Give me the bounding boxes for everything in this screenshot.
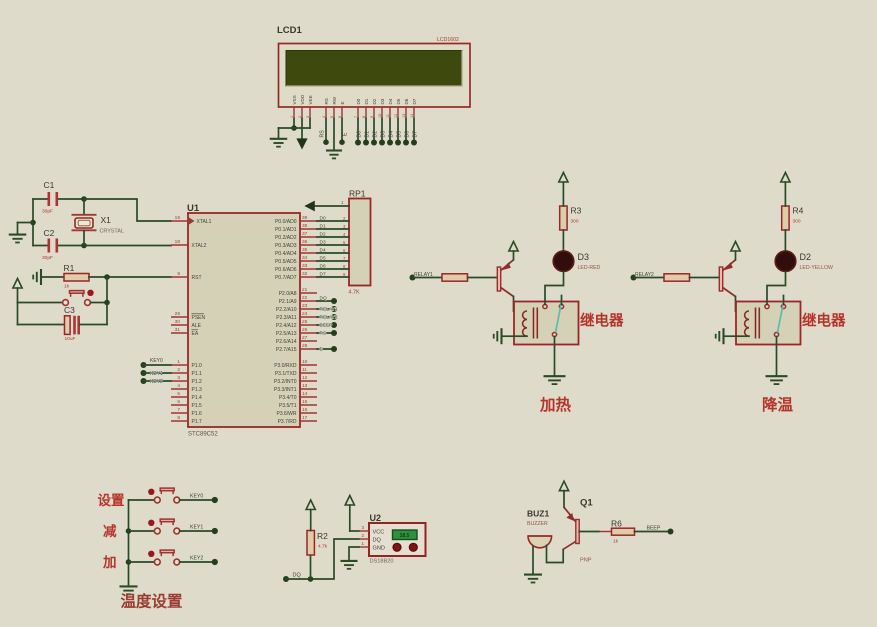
svg-text:27: 27 (302, 335, 308, 341)
node C1-XTAL1 (81, 196, 87, 202)
svg-text:RELAY2: RELAY2 (320, 315, 338, 321)
wire D6 P0 to RP1 (317, 268, 349, 270)
wire resistor to base (690, 277, 720, 279)
svg-text:CRYSTAL: CRYSTAL (100, 229, 124, 235)
svg-text:21: 21 (302, 287, 308, 293)
svg-text:D2: D2 (320, 231, 326, 237)
node D6 terminal (403, 140, 409, 146)
wire buzzer right to collector (547, 546, 564, 563)
svg-text:KEY0: KEY0 (150, 358, 163, 364)
ground (buzzer) (524, 574, 542, 576)
svg-text:P3.5/T1: P3.5/T1 (279, 403, 297, 409)
svg-text:P2.6/A14: P2.6/A14 (276, 339, 297, 345)
svg-text:VSS: VSS (292, 95, 297, 104)
node KEY1 terminal (141, 370, 147, 376)
svg-text:D0: D0 (356, 98, 361, 104)
svg-text:P2.2/A10: P2.2/A10 (276, 307, 297, 313)
svg-text:P3.0/RXD: P3.0/RXD (274, 363, 297, 369)
node KEY2 terminal (141, 378, 147, 384)
node D5 terminal (395, 140, 401, 146)
svg-text:P1.2: P1.2 (192, 379, 203, 385)
svg-text:P2.3/A11: P2.3/A11 (276, 315, 296, 321)
svg-text:D1: D1 (364, 98, 369, 104)
wire collector to coil (514, 297, 528, 312)
ground (relay coil, rotated) (503, 335, 514, 337)
svg-text:D4: D4 (388, 98, 393, 104)
svg-text:P2.4/A12: P2.4/A12 (276, 323, 297, 329)
wire D3 to contact (545, 272, 564, 305)
U2 buttons (393, 543, 401, 551)
buzzer BUZ1 (528, 536, 552, 548)
push-button KEY1 (129, 530, 155, 532)
wire D2 to contact (767, 272, 786, 305)
wire to ground (278, 128, 280, 138)
svg-text:5: 5 (177, 391, 180, 397)
svg-text:D2: D2 (372, 131, 378, 138)
svg-text:D7: D7 (412, 131, 418, 138)
relay coil (745, 311, 749, 336)
ground (crystal) (17, 223, 19, 235)
wire C1-C2 left rail (32, 199, 34, 246)
svg-text:8: 8 (177, 415, 180, 421)
ground (relay common) (766, 375, 788, 377)
node RELAY2 terminal (631, 275, 637, 281)
wire P2 net BEEP (317, 324, 334, 326)
svg-text:D3: D3 (380, 98, 385, 104)
svg-text:P0.4/AD4: P0.4/AD4 (275, 251, 297, 257)
svg-text:C2: C2 (44, 228, 55, 238)
svg-text:D7: D7 (412, 98, 417, 104)
wire R1 to RST (89, 276, 171, 278)
svg-text:KEY2: KEY2 (150, 379, 163, 385)
U1 pin 36 P0.3/AD3 (300, 244, 317, 246)
base resistor (RELAY2) (664, 274, 690, 281)
wire D3 P0 to RP1 (317, 244, 349, 246)
svg-text:E: E (340, 101, 345, 104)
svg-text:D2: D2 (800, 252, 812, 262)
svg-text:加: 加 (102, 555, 117, 570)
svg-text:VDD: VDD (300, 94, 305, 104)
power arrow (transistor VCC) (509, 242, 518, 252)
svg-text:11: 11 (386, 114, 390, 118)
wire contact stub (561, 296, 563, 305)
wire junction down (106, 277, 108, 303)
U1 pin 18 XTAL2 (171, 244, 188, 246)
LCD1 display body (279, 44, 471, 108)
svg-text:P3.3/INT1: P3.3/INT1 (274, 387, 297, 393)
svg-text:P0.6/AD6: P0.6/AD6 (275, 267, 297, 273)
svg-text:10: 10 (302, 359, 308, 365)
wire D5 P0 to RP1 (317, 260, 349, 262)
wire D0 down (357, 119, 359, 141)
svg-text:LED-YELLOW: LED-YELLOW (800, 265, 834, 271)
svg-text:P1.6: P1.6 (192, 411, 203, 417)
svg-text:36: 36 (302, 239, 308, 245)
wire VDD down (301, 119, 303, 141)
power arrow (R2 VCC) (306, 500, 315, 510)
wire R6 to BEEP (635, 531, 669, 533)
svg-text:38: 38 (302, 223, 308, 229)
svg-text:RP1: RP1 (349, 189, 366, 199)
svg-text:XTAL1: XTAL1 (197, 219, 212, 225)
resistor R2 (310, 555, 312, 579)
svg-text:18: 18 (175, 239, 181, 245)
node KEY0 terminal (141, 362, 147, 368)
svg-text:BEEP: BEEP (647, 525, 661, 531)
node D7 terminal (411, 140, 417, 146)
svg-text:KEY0: KEY0 (190, 493, 203, 499)
svg-text:P1.3: P1.3 (192, 387, 203, 393)
node BEEP terminal (668, 529, 674, 535)
capacitor C3 (electrolytic) (17, 303, 19, 325)
svg-text:10: 10 (378, 114, 382, 118)
svg-text:U2: U2 (370, 513, 382, 523)
svg-text:D0: D0 (356, 131, 362, 138)
svg-text:D5: D5 (396, 131, 402, 138)
svg-text:P2.7/A15: P2.7/A15 (276, 347, 297, 353)
svg-text:P3.1/TXD: P3.1/TXD (275, 371, 297, 377)
power arrow (transistor VCC) (731, 242, 740, 252)
U1 pin 10 P3.0/RXD (300, 364, 317, 366)
node gnd tap (30, 220, 36, 226)
svg-text:D3: D3 (380, 131, 386, 138)
svg-text:3: 3 (177, 375, 180, 381)
svg-text:C3: C3 (64, 305, 75, 315)
svg-text:KEY1: KEY1 (190, 524, 203, 530)
svg-text:VEE: VEE (308, 95, 313, 104)
wire base to R6 (579, 531, 599, 533)
svg-text:KEY1: KEY1 (150, 371, 163, 377)
node BEEP (331, 322, 337, 328)
svg-text:12: 12 (302, 375, 308, 381)
svg-text:P0.0/AD0: P0.0/AD0 (275, 219, 297, 225)
svg-text:XTAL2: XTAL2 (192, 243, 207, 249)
svg-text:DQ: DQ (320, 295, 327, 301)
wire common to ground (776, 337, 778, 375)
svg-text:17: 17 (302, 415, 308, 421)
U1 pin 27 P2.6/A14 (300, 340, 317, 342)
svg-text:16: 16 (302, 407, 308, 413)
relay contacts (543, 304, 547, 308)
svg-text:14: 14 (302, 391, 308, 397)
svg-text:P3.4/T0: P3.4/T0 (279, 395, 297, 401)
U1 pin 9 RST (171, 276, 188, 278)
wire P2 net RELAY2 (317, 316, 334, 318)
svg-text:6: 6 (177, 399, 180, 405)
node KEY1 terminal (212, 528, 218, 534)
U1 pin 16 P3.6/WR (300, 412, 317, 414)
svg-text:D4: D4 (320, 247, 326, 253)
power arrow (R3 VCC) (559, 173, 568, 183)
svg-text:32: 32 (302, 271, 308, 277)
wire RW down (333, 119, 335, 150)
transistor Q (RELAY2) (719, 267, 722, 291)
svg-text:30pF: 30pF (42, 209, 53, 215)
wire contact stub (783, 296, 785, 305)
U1 pin 12 P3.2/INT0 (300, 380, 317, 382)
svg-text:10uF: 10uF (65, 336, 76, 342)
svg-text:14: 14 (410, 114, 414, 118)
wire VEE down (309, 119, 311, 129)
power arrow (RP1, left) (306, 202, 315, 211)
XTAL1 clock arrow (189, 218, 195, 225)
node KEY0 terminal (212, 497, 218, 503)
node D3 terminal (379, 140, 385, 146)
ground (key bus) (120, 585, 138, 587)
svg-text:P1.1: P1.1 (192, 371, 203, 377)
svg-text:37: 37 (302, 231, 308, 237)
svg-text:P2.5/A13: P2.5/A13 (276, 331, 297, 337)
svg-text:11: 11 (302, 367, 307, 373)
svg-text:D3: D3 (578, 252, 590, 262)
svg-text:KEY2: KEY2 (190, 555, 203, 561)
node D1 terminal (363, 140, 369, 146)
power arrow VDD (down) (297, 139, 307, 149)
svg-text:继电器: 继电器 (802, 312, 846, 330)
svg-text:1k: 1k (613, 539, 619, 545)
U1 pin 5 P1.4 (171, 396, 188, 398)
node DQ (331, 298, 337, 304)
node RELAY1 (331, 306, 337, 312)
svg-text:300: 300 (793, 219, 801, 225)
U1 pin 26 P2.5/A13 (300, 332, 317, 334)
svg-text:R1: R1 (64, 263, 75, 273)
svg-text:P0.7/AD7: P0.7/AD7 (275, 275, 297, 281)
svg-text:19: 19 (175, 215, 181, 221)
wire D5 down (397, 119, 399, 141)
svg-text:R2: R2 (317, 531, 328, 541)
wire collector to coil (736, 297, 750, 312)
svg-text:D4: D4 (388, 131, 394, 138)
capacitor C2 (33, 245, 49, 247)
svg-text:RW: RW (332, 96, 337, 104)
wire D7 P0 to RP1 (317, 276, 349, 278)
svg-text:D3: D3 (320, 239, 326, 245)
node C2-XTAL2 (81, 243, 87, 249)
node RELAY1 terminal (410, 275, 416, 281)
U1 pin 6 P1.5 (171, 404, 188, 406)
svg-text:P2.1/A9: P2.1/A9 (279, 299, 297, 305)
svg-text:2: 2 (177, 367, 180, 373)
svg-text:D1: D1 (320, 223, 326, 229)
wire KEY0 (144, 364, 172, 366)
U1 pin 2 P1.1 (171, 372, 188, 374)
LCD1 screen (286, 51, 462, 87)
svg-text:22: 22 (302, 295, 308, 301)
svg-text:1k: 1k (64, 284, 70, 290)
relay box (heating) (514, 302, 579, 345)
wire KEY0 to terminal (180, 499, 212, 501)
svg-text:39: 39 (302, 215, 308, 221)
svg-text:R4: R4 (793, 206, 804, 216)
relay coil (523, 311, 527, 336)
svg-text:GND: GND (373, 546, 385, 552)
ground (LCD VSS) (270, 138, 288, 140)
svg-text:RELAY1: RELAY1 (320, 307, 338, 313)
svg-text:温度设置: 温度设置 (121, 592, 183, 611)
node button-right junction (104, 300, 110, 306)
resistor R4 (LED series) (782, 206, 789, 230)
U1 pin 24 P2.3/A11 (300, 316, 317, 318)
relay switch arm (teal) (778, 300, 785, 333)
svg-text:31: 31 (175, 327, 181, 333)
svg-text:25: 25 (302, 319, 308, 325)
wire D0 P0 to RP1 (317, 220, 349, 222)
resistor R3 (LED series) (560, 206, 567, 230)
svg-text:P1.0: P1.0 (192, 363, 203, 369)
transistor Q (RELAY1) (497, 267, 500, 291)
wire P2 net RELAY1 (317, 308, 334, 310)
wire D2 P0 to RP1 (317, 236, 349, 238)
svg-text:E: E (343, 132, 349, 136)
svg-text:ALE: ALE (192, 323, 202, 329)
svg-text:RS: RS (320, 331, 327, 337)
U1 pin 23 P2.2/A10 (300, 308, 317, 310)
node R1-RST junction (104, 274, 110, 280)
wire KEY2 to terminal (180, 561, 212, 563)
node D0 terminal (355, 140, 361, 146)
relay box (cooling) (736, 302, 801, 345)
wire KEY1 (144, 372, 172, 374)
svg-text:28: 28 (302, 343, 308, 349)
wire common to ground (554, 337, 556, 375)
node DQ terminal (283, 576, 289, 582)
svg-text:E: E (320, 347, 323, 353)
U1 pin 11 P3.1/TXD (300, 372, 317, 374)
wire VCC to U2 (350, 530, 359, 532)
svg-text:EA: EA (192, 331, 199, 337)
node RELAY2 (331, 314, 337, 320)
svg-text:15: 15 (302, 399, 308, 405)
svg-text:29: 29 (175, 311, 181, 317)
svg-text:VCC: VCC (373, 530, 385, 536)
wire C1 to XTAL1 (84, 199, 171, 221)
svg-text:RST: RST (192, 275, 202, 281)
node key bus junction (126, 559, 132, 565)
node D2 terminal (371, 140, 377, 146)
svg-text:P3.2/INT0: P3.2/INT0 (274, 379, 297, 385)
wire P2 net E (317, 348, 334, 350)
svg-text:P3.7/RD: P3.7/RD (278, 419, 297, 425)
wire D4 P0 to RP1 (317, 252, 349, 254)
node D4 terminal (387, 140, 393, 146)
capacitor C1 (33, 198, 49, 200)
svg-text:RS: RS (320, 130, 326, 138)
svg-text:DQ: DQ (373, 538, 382, 544)
U1 pin 1 P1.0 (171, 364, 188, 366)
wire R4 to D2 (784, 230, 786, 252)
svg-text:X1: X1 (101, 215, 112, 225)
power arrow (reset VCC) (13, 279, 22, 289)
U1 pin 4 P1.3 (171, 388, 188, 390)
wire VSS down (293, 119, 295, 129)
wire buzzer left to ground (532, 547, 534, 574)
relay contacts (765, 304, 769, 308)
svg-text:P0.1/AD1: P0.1/AD1 (275, 227, 297, 233)
svg-text:P1.4: P1.4 (192, 395, 203, 401)
wire D4 down (389, 119, 391, 141)
node VSS/VEE junction (291, 125, 297, 131)
microcontroller U1 body (188, 213, 300, 427)
svg-text:26: 26 (302, 327, 308, 333)
wire to crystal ground (18, 222, 34, 224)
svg-text:LCD1: LCD1 (277, 25, 303, 36)
U1 pin 8 P1.7 (171, 420, 188, 422)
svg-text:33: 33 (302, 263, 308, 269)
wire D1 down (365, 119, 367, 141)
power arrow (U2 VCC) (345, 496, 354, 506)
wire D6 down (405, 119, 407, 141)
svg-text:PNP: PNP (580, 558, 592, 564)
svg-text:C1: C1 (44, 180, 55, 190)
svg-text:D0: D0 (320, 215, 326, 221)
svg-text:D7: D7 (320, 271, 326, 277)
svg-text:P2.0/A8: P2.0/A8 (279, 291, 297, 297)
U1 pin 7 P1.6 (171, 412, 188, 414)
svg-text:13: 13 (302, 383, 308, 389)
wire RS down (325, 119, 327, 141)
svg-text:P1.7: P1.7 (192, 419, 203, 425)
svg-text:30: 30 (175, 319, 181, 325)
U1 pin 19 XTAL1 (171, 220, 188, 222)
U1 pin 14 P3.4/T0 (300, 396, 317, 398)
wire D3 down (381, 119, 383, 141)
power arrow (Q1 VCC) (559, 481, 568, 491)
ground (relay common) (544, 375, 566, 377)
svg-text:7: 7 (177, 407, 180, 413)
svg-text:1: 1 (177, 359, 180, 365)
relay core (755, 308, 757, 339)
U1 pin 35 P0.4/AD4 (300, 252, 317, 254)
svg-text:LCD1602: LCD1602 (437, 37, 459, 43)
svg-text:P0.2/AD2: P0.2/AD2 (275, 235, 297, 241)
node R2 junction (308, 576, 314, 582)
wire RELAY2 to base resistor (634, 277, 665, 279)
svg-text:继电器: 继电器 (580, 312, 624, 330)
svg-text:23: 23 (302, 303, 308, 309)
svg-text:D6: D6 (404, 98, 409, 104)
svg-text:9: 9 (177, 271, 180, 277)
U1 pin 3 P1.2 (171, 380, 188, 382)
relay core (533, 308, 535, 339)
U1 pin 34 P0.5/AD5 (300, 260, 317, 262)
RP1 pin 1 to power (314, 205, 349, 207)
svg-text:D6: D6 (404, 131, 410, 138)
resistor pack RP1 (349, 199, 371, 286)
wire D2 down (373, 119, 375, 141)
node E terminal (339, 139, 345, 145)
U1 pin 38 P0.1/AD1 (300, 228, 317, 230)
svg-text:R6: R6 (611, 518, 622, 528)
U1 pin 37 P0.2/AD2 (300, 236, 317, 238)
resistor R1 (64, 274, 89, 282)
node E (331, 346, 337, 352)
svg-text:R3: R3 (571, 206, 582, 216)
U1 pin 15 P3.5/T1 (300, 404, 317, 406)
wire VSS-VEE tie (279, 127, 311, 129)
svg-text:4.7K: 4.7K (349, 290, 360, 296)
svg-text:D1: D1 (364, 131, 370, 138)
LED D3 (LED-RED) (553, 251, 574, 272)
wire R3 to D3 (562, 230, 564, 252)
node key bus junction (126, 528, 132, 534)
svg-text:PSEN: PSEN (192, 315, 206, 321)
U1 pin 39 P0.0/AD0 (300, 220, 317, 222)
ground (R1 left, rotated) (40, 269, 42, 285)
svg-text:24: 24 (302, 311, 308, 317)
U1 pin 29 PSEN (171, 316, 188, 318)
wire DQ rail (286, 539, 359, 579)
